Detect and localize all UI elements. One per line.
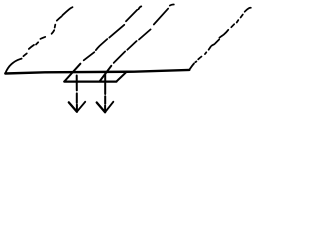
left end hook (plane-continues marker): [5, 59, 21, 74]
patch right side: [116, 72, 126, 82]
dashed extension line D (right dotted perspective edge): [198, 8, 251, 60]
arrow 1 dashed shaft (downward current arrow): [76, 76, 78, 112]
arrow 2 dashed shaft (downward current arrow): [104, 75, 106, 112]
patch left side = solid part of line B: [64, 64, 80, 82]
line C top hook: [170, 4, 174, 5]
arrow 2 head: [97, 103, 105, 113]
plane front edge (main horizontal line): [5, 70, 189, 74]
right end hook (plane-continues marker): [189, 64, 194, 70]
dashed line C (right strip edge, dashes): [114, 9, 169, 63]
patch bottom edge (parallelogram): [64, 80, 116, 82]
arrow 1 head: [69, 102, 77, 111]
dashed extension line A (left dotted perspective edge): [23, 7, 72, 56]
solid part of line C (crossing the patch): [100, 66, 112, 82]
dashed line B (left strip edge, dashes): [84, 10, 138, 61]
line B top hook: [139, 6, 142, 9]
